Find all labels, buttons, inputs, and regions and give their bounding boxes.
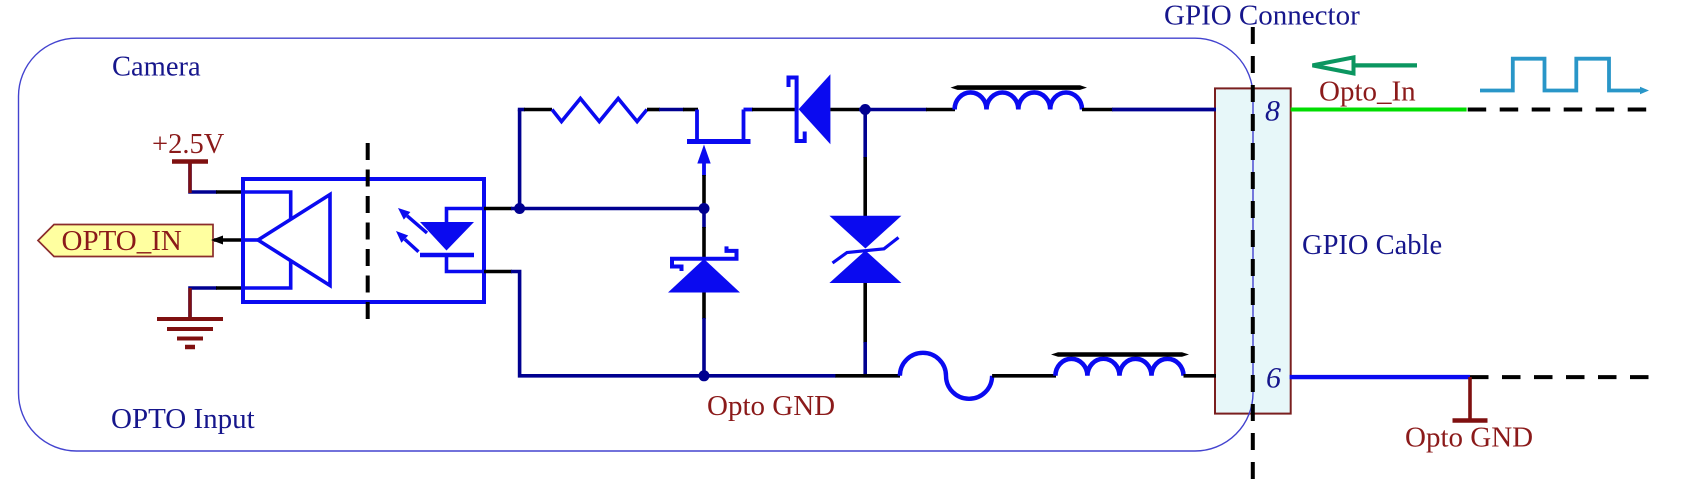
pin stub TVS top <box>863 157 867 216</box>
optocoupler U1 bottom rail <box>245 260 291 288</box>
zener diode Z1 triangle <box>668 259 740 293</box>
pin stub opto pin3 <box>216 286 243 290</box>
optocoupler U1 LED bracket bottom <box>447 255 485 272</box>
svg-text:8: 8 <box>1265 95 1280 128</box>
zener column: wire node A2 down <box>702 209 706 229</box>
optocoupler U1 LED cathode bar <box>420 253 474 258</box>
optocoupler U1 body <box>243 179 484 302</box>
GPIO connector body J1 <box>1215 88 1291 413</box>
GPIO connector dashed boundary <box>1251 27 1255 483</box>
svg-text:Camera: Camera <box>112 52 201 83</box>
wire: node B to bead L1 <box>865 108 927 112</box>
wire: top left corner <box>518 108 525 112</box>
wire: opto pin5 (bottom right) stub <box>484 270 512 274</box>
junction node C <box>699 370 710 381</box>
pin stub zener anode <box>702 293 706 320</box>
pin stub opto pin2 <box>214 238 243 242</box>
pin stub bead L1 right <box>1082 108 1113 112</box>
svg-text:OPTO_IN: OPTO_IN <box>62 225 182 257</box>
resistor R1 <box>552 99 647 122</box>
dashed continuation of pin 6 net <box>1470 375 1649 379</box>
pin stub resistor right <box>647 108 660 112</box>
zener diode Z1 cathode bar <box>672 246 737 271</box>
wire: pin5 down to bottom rail <box>511 272 704 376</box>
pin stub diode anode <box>752 108 795 112</box>
camera enclosure outline <box>19 38 1254 451</box>
transistor Q1 lead to diode <box>744 108 754 112</box>
transistor Q1 channel bar <box>687 139 751 144</box>
pin stub squiggle left <box>835 374 900 378</box>
net flag OPTO_IN <box>38 225 213 257</box>
pin stub TVS bottom <box>863 283 867 343</box>
optocoupler U1 LED bracket top <box>447 209 485 224</box>
square wave pulse train <box>1480 59 1642 91</box>
wire: resistor to transistor <box>659 108 684 112</box>
junction node B <box>860 104 871 115</box>
wire: zener anode to bottom rail <box>702 318 706 376</box>
optocoupler U1 LED triangle <box>420 222 474 251</box>
pin stub gate <box>702 175 706 209</box>
transistor Q1 right lead <box>742 110 746 142</box>
svg-text:GPIO Connector: GPIO Connector <box>1164 0 1360 32</box>
pin stub opto pin4 (top right) <box>484 207 512 211</box>
wire: ground to opto pin3 <box>190 288 217 318</box>
pin stub diode cathode <box>830 108 860 112</box>
power symbol +2.5V <box>172 159 208 164</box>
pin stub transistor left <box>683 108 698 112</box>
wire: pin 8 net Opto_In (green) <box>1291 108 1467 112</box>
inductor squiggle L2 <box>900 353 992 399</box>
transistor Q1 gate lead <box>702 160 706 176</box>
ferrite bead L1 bar <box>951 85 1088 90</box>
schottky diode D1 triangle <box>799 74 831 144</box>
svg-text:OPTO Input: OPTO Input <box>111 403 255 435</box>
isolation boundary dashed line <box>366 143 370 327</box>
optocoupler U1 light arrow 2 <box>396 231 419 252</box>
ground symbol <box>157 288 223 347</box>
TVS column: wire node B down <box>863 110 867 159</box>
wire: pin 6 net (blue) <box>1290 375 1470 379</box>
signal direction arrow <box>1313 57 1418 73</box>
svg-text:6: 6 <box>1266 362 1281 395</box>
wire: diode to node B <box>859 108 871 112</box>
ferrite bead L3 coils <box>1055 359 1183 376</box>
pin stub squiggle right to bead <box>992 374 1056 378</box>
optocoupler U1 receiver triangle <box>258 195 330 286</box>
svg-text:Opto_In: Opto_In <box>1319 76 1416 108</box>
junction node A <box>514 203 525 214</box>
pin stub bead L3 right <box>1184 374 1217 378</box>
pin stub zener cathode <box>702 227 706 258</box>
wire: node A riser to resistor <box>518 110 522 209</box>
wire: +2.5V to opto pin1 <box>190 163 217 192</box>
pin stub bead L1 left <box>926 108 955 112</box>
TVS diode D2 bottom triangle <box>829 251 901 284</box>
transistor Q1 gate arrowhead <box>697 145 710 164</box>
Opto GND power symbol right <box>1453 377 1488 421</box>
optocoupler U1 input lead <box>245 238 259 242</box>
pin stub opto pin1 <box>216 190 243 194</box>
optocoupler U1 light arrow 1 <box>398 208 427 233</box>
svg-text:+2.5V: +2.5V <box>152 129 225 160</box>
dashed continuation of Opto_In <box>1468 108 1649 112</box>
ferrite bead L3 bar <box>1051 352 1189 357</box>
ferrite bead L1 coils <box>955 92 1082 109</box>
pin stub resistor left <box>524 108 552 112</box>
optocoupler U1 top rail <box>245 192 291 220</box>
wire: bottom rail node C to squiggle <box>704 374 836 378</box>
TVS diode D2 top triangle <box>829 216 901 249</box>
svg-text:GPIO Cable: GPIO Cable <box>1302 230 1442 261</box>
TVS diode D2 zener bar <box>833 238 899 264</box>
wire: pin4 to node A <box>511 207 704 211</box>
wire: TVS to bottom rail <box>863 342 867 376</box>
junction node A2 <box>699 203 710 214</box>
svg-text:Opto GND: Opto GND <box>707 390 835 422</box>
wire: bead L1 to connector pin 8 <box>1112 108 1216 112</box>
svg-text:Opto GND: Opto GND <box>1405 422 1533 454</box>
transistor Q1 left lead <box>695 110 699 142</box>
schottky diode D1 cathode bar <box>789 78 805 142</box>
